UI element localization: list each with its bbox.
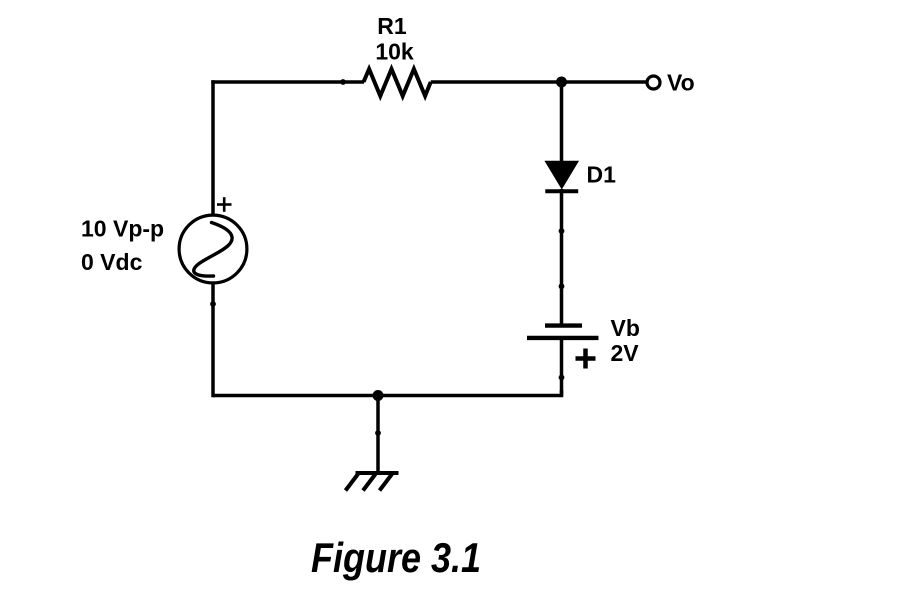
wire top-right horizontal (resistor to Vo terminal) (431, 80, 646, 84)
node junction top (R1/diode) (556, 77, 567, 88)
ground (346, 396, 399, 491)
svg-text:Vb: Vb (611, 315, 640, 341)
svg-text:Vo: Vo (667, 70, 695, 96)
svg-text:0 Vdc: 0 Vdc (81, 249, 143, 275)
wire left vertical (source to bottom) (211, 283, 215, 398)
svg-text:10k: 10k (375, 39, 414, 65)
svg-text:D1: D1 (587, 162, 617, 188)
wire bottom horizontal (213, 390, 562, 396)
wire joint on ground stem (375, 430, 381, 436)
wire joint on left branch (210, 301, 216, 307)
wire joint below battery (559, 375, 565, 381)
node junction bottom (ground tap) (373, 390, 384, 401)
source V1 sine symbol (179, 215, 247, 283)
wire top-left horizontal (source to resistor) (211, 80, 364, 84)
terminal Vo (open circle) (647, 76, 660, 89)
svg-text:R1: R1 (377, 13, 407, 39)
battery Vb (527, 326, 599, 338)
wire right vertical (battery to bottom) (560, 338, 564, 396)
wire right vertical (node to diode) (560, 82, 564, 163)
wire joint on diode branch lower (559, 283, 565, 289)
wire right vertical (diode to battery) (560, 189, 564, 325)
svg-text:10 Vp-p: 10 Vp-p (81, 216, 164, 242)
wire joint on diode branch upper (559, 228, 565, 234)
diode D1 (545, 161, 578, 191)
wire left vertical (top to source) (211, 80, 215, 215)
source polarity plus sign (217, 197, 232, 212)
wire joint on top wire (340, 79, 346, 85)
svg-text:Figure 3.1: Figure 3.1 (311, 534, 481, 581)
battery polarity plus sign (576, 349, 596, 369)
resistor R1 (364, 69, 431, 96)
svg-text:2V: 2V (611, 340, 640, 366)
